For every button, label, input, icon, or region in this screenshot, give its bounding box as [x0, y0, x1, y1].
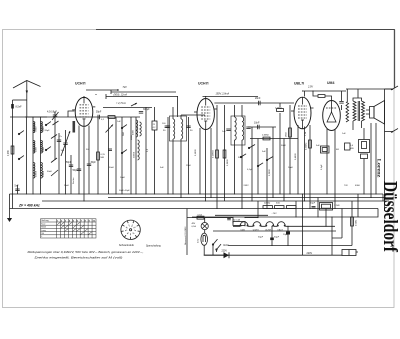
svg-text:Lang: Lang — [41, 230, 45, 232]
svg-text:2kΩ: 2kΩ — [123, 132, 125, 136]
svg-text:0,1MΩ: 0,1MΩ — [195, 149, 197, 156]
capacitor 20nF coupling — [258, 101, 260, 105]
svg-text:2200Ω: 2200Ω — [264, 203, 271, 205]
capacitor padder — [57, 139, 61, 141]
svg-text:30μF: 30μF — [258, 237, 264, 239]
capacitor 0,1uF out — [339, 101, 343, 103]
trimmer t4 — [51, 170, 58, 176]
wire 0,7M col — [279, 103, 281, 194]
wire U2 col2 — [224, 105, 226, 201]
svg-text:0,1: 0,1 — [101, 119, 105, 121]
coil antenna L2a — [33, 141, 35, 153]
wire volume col — [289, 105, 291, 194]
switch extra b — [257, 165, 258, 166]
switch osc upper — [121, 127, 122, 128]
svg-text:100: 100 — [162, 123, 166, 125]
wire padder col — [58, 133, 60, 194]
svg-text:Düsseldorf: Düsseldorf — [379, 181, 400, 252]
svg-text:1nF: 1nF — [222, 131, 226, 133]
switch band left lower — [18, 158, 19, 159]
wire left top jog — [13, 99, 27, 101]
transformer core — [357, 101, 359, 121]
svg-text:10nF: 10nF — [120, 177, 126, 179]
svg-text:25nF: 25nF — [186, 165, 192, 167]
wire heater line — [233, 223, 335, 226]
wire trimmer col — [54, 112, 56, 160]
svg-text:2000: 2000 — [43, 146, 45, 152]
wire switch col — [213, 245, 217, 256]
wire anode meas y107 — [103, 107, 152, 109]
svg-text:110V: 110V — [223, 245, 229, 247]
wire U1 pin a — [78, 126, 80, 195]
wire power col f — [331, 217, 333, 255]
svg-text:0,3MΩ: 0,3MΩ — [262, 135, 269, 137]
wire bus drop right1 — [382, 194, 384, 201]
svg-text:5nF: 5nF — [316, 145, 320, 147]
speaker — [370, 107, 375, 119]
svg-text:≈ 2,7mA: ≈ 2,7mA — [116, 101, 126, 105]
wire U4 pin b — [334, 130, 336, 209]
switch TA lower — [266, 159, 267, 160]
wire det col — [251, 127, 253, 201]
svg-text:0,3: 0,3 — [147, 148, 149, 152]
svg-text:0,1A: 0,1A — [198, 213, 203, 216]
resistor NTC box — [320, 203, 333, 211]
wire bottom y256 — [205, 254, 332, 256]
svg-text:9: 9 — [133, 228, 135, 230]
svg-text:300μF: 300μF — [143, 109, 150, 111]
svg-text:UCH7I: UCH7I — [253, 229, 259, 231]
resistor RC a — [263, 206, 273, 209]
ink smudge near tube1 — [73, 121, 76, 133]
wire osc col5 — [154, 107, 156, 194]
coil osc Lb — [138, 140, 140, 160]
svg-text:20pF: 20pF — [45, 130, 51, 132]
wire mains inlet — [187, 217, 205, 219]
wire power col e — [325, 209, 327, 227]
resistor 0,08 left — [11, 146, 14, 154]
trimmer 4,5-19pF — [53, 114, 57, 116]
wire out stage top y91 — [302, 90, 345, 92]
svg-text:Netzanschl. 110-240V: Netzanschl. 110-240V — [184, 226, 187, 245]
wire meas line 70V — [215, 214, 268, 216]
capacitor osc pad — [108, 148, 112, 150]
svg-text:2×: 2× — [60, 135, 63, 138]
svg-text:Mittel: Mittel — [41, 226, 46, 229]
tube U4 UM4 magic eye — [323, 101, 341, 131]
svg-text:90: 90 — [163, 130, 166, 132]
coil T2 secondary — [242, 117, 244, 140]
fuse 0,1A — [197, 216, 204, 219]
wire bottom y245 — [228, 245, 312, 247]
wire bottom mains y217 — [192, 216, 345, 218]
capacitor 50uF elco — [270, 238, 274, 241]
svg-text:0,1μF: 0,1μF — [247, 169, 253, 171]
svg-text:0,080: 0,080 — [8, 150, 10, 156]
wire coil col b — [40, 117, 42, 194]
wire RF row y117 — [10, 116, 140, 118]
wire out cap col — [342, 89, 348, 110]
coil T2 primary — [235, 117, 237, 140]
capacitor 300 osc — [139, 111, 143, 113]
table X marks — [57, 222, 60, 224]
wire U1 grid stub — [68, 111, 74, 117]
wire U3 pin a — [297, 125, 299, 194]
svg-text:2000: 2000 — [35, 126, 37, 132]
wire U2 feed — [205, 97, 207, 99]
variable capacitor gang1 — [63, 142, 67, 144]
svg-text:50pF: 50pF — [73, 170, 79, 172]
capacitor T1 a — [165, 125, 169, 127]
coil antenna L1a — [33, 122, 35, 133]
svg-text:20nF: 20nF — [255, 97, 261, 100]
wire osc col2 — [121, 117, 123, 194]
svg-text:50pF: 50pF — [96, 112, 102, 114]
wire power col a — [245, 201, 258, 218]
svg-text:1,2kΩ: 1,2kΩ — [334, 205, 340, 207]
resistor field coil box — [359, 140, 370, 153]
svg-text:4,5-19pF: 4,5-19pF — [47, 111, 57, 114]
svg-text:90: 90 — [190, 130, 193, 132]
svg-text:25nF: 25nF — [64, 185, 70, 187]
svg-text:0,5MΩ: 0,5MΩ — [227, 159, 229, 166]
tube U2 UCH71 IF amp — [197, 99, 214, 130]
svg-text:5nF: 5nF — [15, 185, 20, 188]
ground chassis left — [9, 214, 11, 218]
resistor dropper — [233, 222, 245, 226]
coil osc La — [136, 120, 138, 137]
resistor RC c — [287, 206, 297, 209]
capacitor 50pF col — [69, 164, 73, 166]
wire U1 right col — [97, 117, 99, 194]
wire coil cross top — [25, 116, 47, 118]
resistor 0,3M af — [263, 137, 270, 140]
wire lamp col — [204, 218, 223, 256]
svg-text:MΩ: MΩ — [101, 157, 105, 159]
switch band left upper — [18, 133, 19, 134]
svg-text:4000: 4000 — [133, 129, 135, 135]
wire af row y138 — [250, 138, 298, 140]
wire U3 plate — [304, 91, 306, 97]
resistor eye cathode box — [321, 146, 330, 153]
resistor 0,15M U1 — [97, 152, 100, 160]
coil antenna L3b — [41, 163, 43, 178]
wire U3 pin b — [304, 127, 306, 202]
coil osc La2 — [140, 122, 142, 136]
tuning gang arrow — [61, 131, 70, 156]
capacitor 8,5nF antenna series — [11, 104, 14, 109]
svg-text:2,5V: 2,5V — [307, 86, 313, 89]
switch mains b — [216, 249, 217, 250]
svg-text:0,4: 0,4 — [350, 145, 354, 147]
wire af col4 — [283, 139, 285, 202]
svg-text:5nF: 5nF — [262, 151, 266, 153]
trimmer t1 — [53, 121, 59, 125]
resistor field inner — [362, 142, 367, 149]
svg-text:150V, 2,8mA: 150V, 2,8mA — [216, 92, 230, 95]
switch band mid upper — [45, 124, 46, 125]
IF transformer T2 box — [231, 116, 245, 145]
rotary band switch rear view — [121, 220, 140, 239]
capacitor 10nF — [257, 125, 259, 129]
trimmer arrow osc — [106, 125, 114, 133]
wire osc col1b — [108, 117, 110, 194]
wire speaker leads — [366, 110, 370, 114]
wire if sec top — [181, 114, 205, 116]
svg-text:0,35MΩ: 0,35MΩ — [306, 142, 308, 150]
svg-text:20000: 20000 — [35, 170, 37, 177]
wire stage1 meas top — [111, 91, 176, 93]
capacitor 5nF left bottom — [15, 188, 19, 190]
wire speaker col2 — [370, 123, 372, 198]
wire T1 sec col — [180, 115, 182, 198]
switch mains a — [212, 244, 213, 245]
svg-text:1MΩ: 1MΩ — [286, 132, 288, 137]
terminal right lower — [391, 129, 398, 133]
table inner grid — [41, 221, 97, 223]
trimmer t2 — [51, 135, 57, 139]
wire ta col — [257, 139, 259, 195]
switch TA upper — [248, 147, 249, 148]
switch band mid lower — [45, 149, 46, 150]
transformer output primary zigzag — [353, 101, 356, 121]
svg-text:1nF: 1nF — [117, 121, 121, 123]
wire speaker col3 — [375, 123, 377, 194]
svg-text:2000: 2000 — [35, 146, 37, 152]
svg-text:6300: 6300 — [355, 185, 361, 187]
wire tr sec bottom — [361, 121, 363, 128]
svg-text:8,5nF: 8,5nF — [16, 106, 23, 109]
wire bottom right col — [312, 201, 352, 246]
coil T1 primary — [173, 119, 175, 139]
svg-text:UCH7I: UCH7I — [75, 82, 86, 86]
resistor cath U3 — [309, 140, 312, 148]
wire af row y127 — [248, 126, 276, 128]
wire U3 pin c — [309, 125, 311, 209]
svg-text:4,5Ω: 4,5Ω — [198, 238, 200, 243]
wire gang1 col — [65, 130, 67, 194]
svg-text:0,25MΩ: 0,25MΩ — [213, 150, 215, 158]
wire ground bus y208.5 — [10, 208, 379, 210]
svg-text:20000: 20000 — [43, 170, 45, 177]
lamp dial small — [201, 223, 208, 230]
switch osc lower — [121, 152, 122, 153]
capacitor T2 a — [226, 128, 230, 130]
coil antenna L2b — [41, 141, 43, 153]
resistor bottom right — [351, 217, 354, 226]
wire osc col4 — [145, 107, 147, 194]
wire power col c — [302, 194, 304, 255]
svg-text:0,5MΩ: 0,5MΩ — [356, 219, 358, 226]
svg-text:10nF: 10nF — [288, 167, 294, 169]
svg-text:Kurz: Kurz — [41, 223, 45, 225]
svg-text:1nF: 1nF — [342, 133, 346, 135]
svg-text:10μF: 10μF — [283, 234, 289, 236]
svg-text:ZF = 468 kHz: ZF = 468 kHz — [18, 204, 40, 208]
svg-text:5nF: 5nF — [160, 167, 164, 169]
svg-text:(50V), 12mA: (50V), 12mA — [114, 93, 128, 96]
resistor 500 osc — [108, 116, 115, 119]
wire det row y105 — [214, 102, 294, 104]
svg-text:72V: 72V — [123, 86, 128, 89]
wire T1 pri col — [172, 107, 174, 194]
svg-text:4Ω 0,4A: 4Ω 0,4A — [233, 218, 241, 221]
choke zigzag — [346, 102, 349, 122]
heater chain coils — [240, 222, 248, 227]
wire osc coil col — [135, 117, 137, 194]
svg-text:6: 6 — [127, 228, 129, 230]
tube U1 UCH71 mixer — [75, 97, 93, 126]
wire U2 meas — [203, 96, 259, 98]
wire ta col2 — [266, 148, 268, 209]
antenna — [13, 81, 41, 89]
wire T1 cap col — [188, 117, 190, 194]
wire U2 right col — [216, 105, 218, 209]
svg-text:220V: 220V — [307, 252, 313, 255]
wire tr prim bottom — [352, 121, 354, 130]
wire U1 pin b — [83, 127, 85, 201]
wire right edge drop — [394, 30, 396, 89]
wire dropper join — [205, 218, 233, 224]
svg-text:UCH7I: UCH7I — [198, 82, 209, 86]
svg-text:0,7MΩ: 0,7MΩ — [275, 108, 282, 110]
resistor RC b — [275, 206, 285, 209]
svg-text:30000: 30000 — [134, 151, 136, 158]
svg-text:10nF: 10nF — [254, 122, 260, 125]
wire stage1 meas bot — [106, 97, 178, 118]
wire B+ top bus — [96, 29, 395, 31]
svg-text:25: 25 — [153, 124, 156, 126]
svg-text:220V: 220V — [222, 251, 228, 253]
svg-text:UBL7I: UBL7I — [294, 82, 304, 86]
wire U4 pin a — [326, 129, 328, 194]
svg-text:243V: 243V — [244, 185, 250, 187]
capacitor 10uF elco — [286, 232, 290, 235]
svg-text:60Ω: 60Ω — [276, 203, 280, 205]
wire tr top — [353, 89, 362, 101]
mains connector box — [342, 250, 356, 256]
svg-text:0,15: 0,15 — [101, 154, 106, 156]
wire stage1 arrow annotation — [86, 89, 119, 91]
resistor vol pot — [289, 128, 292, 137]
arrow 2,7mA — [131, 103, 137, 106]
wire U1 pin c — [88, 126, 90, 195]
wire antenna lead — [26, 81, 28, 118]
svg-text:6Ω: 6Ω — [336, 149, 339, 151]
svg-text:50nF: 50nF — [109, 167, 115, 169]
wire speaker col1 — [363, 128, 365, 194]
wire eye top — [313, 91, 332, 101]
svg-text:160: 160 — [61, 150, 65, 152]
svg-text:0,4MΩ: 0,4MΩ — [295, 153, 297, 160]
svg-text:Schwenkstufe: Schwenkstufe — [119, 244, 135, 247]
capacitor T2 b — [246, 126, 250, 128]
trimmer t3 — [51, 158, 57, 163]
wire heater line y231 — [213, 230, 336, 232]
wire osc col3 — [130, 117, 132, 194]
svg-text:50pF: 50pF — [281, 145, 287, 147]
svg-text:MΩ: MΩ — [350, 148, 354, 150]
antenna lead arrowhead — [26, 91, 28, 95]
wire U2 pin a — [199, 128, 201, 194]
wire left edge down to ground — [9, 194, 11, 214]
svg-text:Meßspannungen über 0,1MΩ/V,: Meßspannungen über 0,1MΩ/V, 50V bzw 30V∼… — [28, 250, 144, 254]
svg-text:–70V: –70V — [272, 213, 278, 215]
svg-text:50μF: 50μF — [274, 237, 280, 239]
capacitor 100pF — [166, 125, 170, 127]
wire left input column — [12, 100, 14, 209]
resistor 1M U2 — [223, 150, 226, 158]
capacitor 50pF grid — [97, 115, 99, 119]
resistor 0,25M U2 — [216, 150, 219, 158]
wire power left boundary — [186, 209, 188, 256]
svg-text:0,1μF: 0,1μF — [321, 164, 323, 170]
resistor 1M eye — [318, 95, 325, 98]
coil antenna L1b — [41, 122, 43, 133]
svg-text:Lorenz: Lorenz — [375, 159, 381, 178]
wire stage1 tick — [106, 90, 111, 99]
coil T1 secondary — [181, 119, 183, 139]
diode rectifier — [224, 252, 230, 258]
svg-text:70V: 70V — [344, 185, 348, 187]
svg-text:UBL7I: UBL7I — [277, 229, 283, 231]
table band-switch grid frame — [41, 219, 97, 238]
capacitor T1 b — [186, 125, 190, 127]
IF transformer T1 box — [170, 116, 187, 141]
svg-text:48V: 48V — [192, 223, 196, 225]
wire power col d — [317, 198, 319, 218]
resistor box ZB — [152, 121, 157, 130]
capacitor 50uF b — [312, 206, 316, 208]
wire 50pF col — [70, 155, 72, 194]
svg-text:50μF: 50μF — [310, 203, 316, 205]
svg-text:30nF: 30nF — [47, 171, 53, 173]
capacitor 30pF — [87, 163, 91, 165]
capacitor mains a — [227, 218, 231, 220]
wire antenna mid col — [26, 117, 28, 194]
svg-text:50pF+50pF: 50pF+50pF — [119, 190, 130, 192]
wire br col3 — [357, 194, 359, 217]
scale lamp bulb — [201, 233, 208, 245]
resistor 345 small — [345, 143, 351, 150]
wire U2 pin c — [210, 128, 212, 198]
wire T2 pri col — [234, 105, 236, 194]
transformer output secondary zigzag — [362, 101, 365, 121]
svg-text:Drehko eingestellt, Bereichsc: Drehko eingestellt, Bereichschalter auf … — [35, 255, 123, 259]
wire 5nF stub — [17, 185, 19, 194]
svg-text:Sparschaltung: Sparschaltung — [146, 245, 161, 248]
wire mains box line — [332, 252, 358, 255]
svg-text:Stellung: Stellung — [41, 219, 48, 222]
svg-text:30pF: 30pF — [91, 162, 97, 164]
wire T2 sec col — [241, 105, 243, 209]
resistor 0,7M — [277, 109, 284, 112]
wire osc col1 — [115, 117, 117, 194]
svg-text:50nF: 50nF — [238, 157, 244, 159]
tube U3 UBL71 output — [294, 97, 311, 129]
wire bus drop right2 — [345, 209, 378, 218]
wire AVC bus y194 — [10, 193, 384, 195]
svg-text:4,2: 4,2 — [153, 127, 157, 129]
svg-text:UCH7I: UCH7I — [265, 229, 271, 231]
wire coil col a — [32, 117, 34, 194]
switch extra a — [240, 156, 241, 157]
wire bus y201 — [42, 200, 389, 202]
wire if1 col0 — [167, 117, 169, 194]
svg-text:Drehko: Drehko — [73, 177, 75, 184]
wire power col b — [295, 201, 297, 217]
svg-text:UM4: UM4 — [327, 81, 334, 85]
